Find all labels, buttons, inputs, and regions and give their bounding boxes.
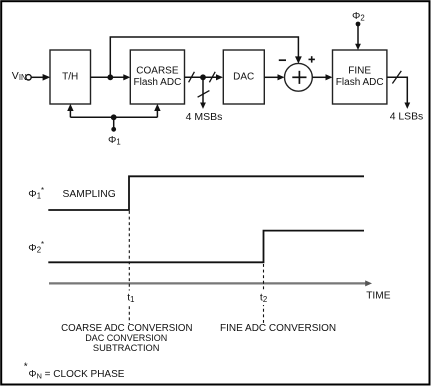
svg-text:TIME: TIME <box>366 291 391 302</box>
bus slash 1 <box>189 72 195 83</box>
wire phi1 distribution <box>70 116 157 118</box>
label plus sign <box>309 58 315 60</box>
dashed line t2 <box>263 264 265 324</box>
time axis <box>49 282 367 284</box>
svg-text:Flash ADC: Flash ADC <box>134 77 182 88</box>
wire DAC to summer <box>264 76 278 78</box>
label minus sign <box>279 59 286 61</box>
svg-text:FINE ADC CONVERSION: FINE ADC CONVERSION <box>220 323 336 334</box>
wire COARSE to DAC <box>185 76 217 78</box>
wire FINE output 4 LSBs <box>387 77 407 103</box>
svg-text:SAMPLING: SAMPLING <box>63 189 116 200</box>
dashed line t1 <box>128 211 130 324</box>
wire summer to FINE <box>312 76 326 78</box>
wire VIN to T/H <box>31 76 43 78</box>
svg-text:FINE: FINE <box>348 66 371 77</box>
svg-text:SUBTRACTION: SUBTRACTION <box>93 343 160 353</box>
wire phi2 to FINE <box>357 24 359 44</box>
block COARSE Flash ADC <box>130 50 184 104</box>
svg-text:DAC CONVERSION: DAC CONVERSION <box>85 333 167 343</box>
waveform phi1 <box>48 176 364 210</box>
wire T/H to COARSE <box>91 76 125 78</box>
svg-text:4 MSBs: 4 MSBs <box>186 111 223 123</box>
svg-text:4 LSBs: 4 LSBs <box>390 112 424 123</box>
bus slash MSB branch <box>198 91 210 98</box>
block T/H <box>50 50 91 104</box>
svg-text:T/H: T/H <box>62 72 78 83</box>
svg-text:ΦN = CLOCK PHASE: ΦN = CLOCK PHASE <box>29 369 125 380</box>
wire feedforward to summer <box>110 37 298 77</box>
waveform phi2 <box>48 231 364 263</box>
svg-text:Flash ADC: Flash ADC <box>336 77 384 88</box>
svg-text:DAC: DAC <box>233 72 254 83</box>
svg-text:COARSE: COARSE <box>136 66 179 77</box>
wire 4 MSBs branch <box>202 77 204 103</box>
node VIN input terminal <box>26 75 31 80</box>
summing junction <box>285 63 313 91</box>
wire phi1 stub <box>113 117 115 129</box>
node phi2 terminal <box>356 22 361 27</box>
node phi1 junction <box>111 114 117 120</box>
label t2 <box>258 291 271 306</box>
node junction 4 MSBs <box>200 74 206 80</box>
block DAC <box>223 50 264 104</box>
block FINE Flash ADC <box>333 50 387 104</box>
label t1 <box>125 291 138 306</box>
node junction after T/H <box>107 74 113 80</box>
svg-text:*: * <box>24 362 28 373</box>
bus slash LSB <box>392 71 401 84</box>
bus slash 2 <box>209 72 215 83</box>
node phi1 terminal <box>111 127 116 132</box>
